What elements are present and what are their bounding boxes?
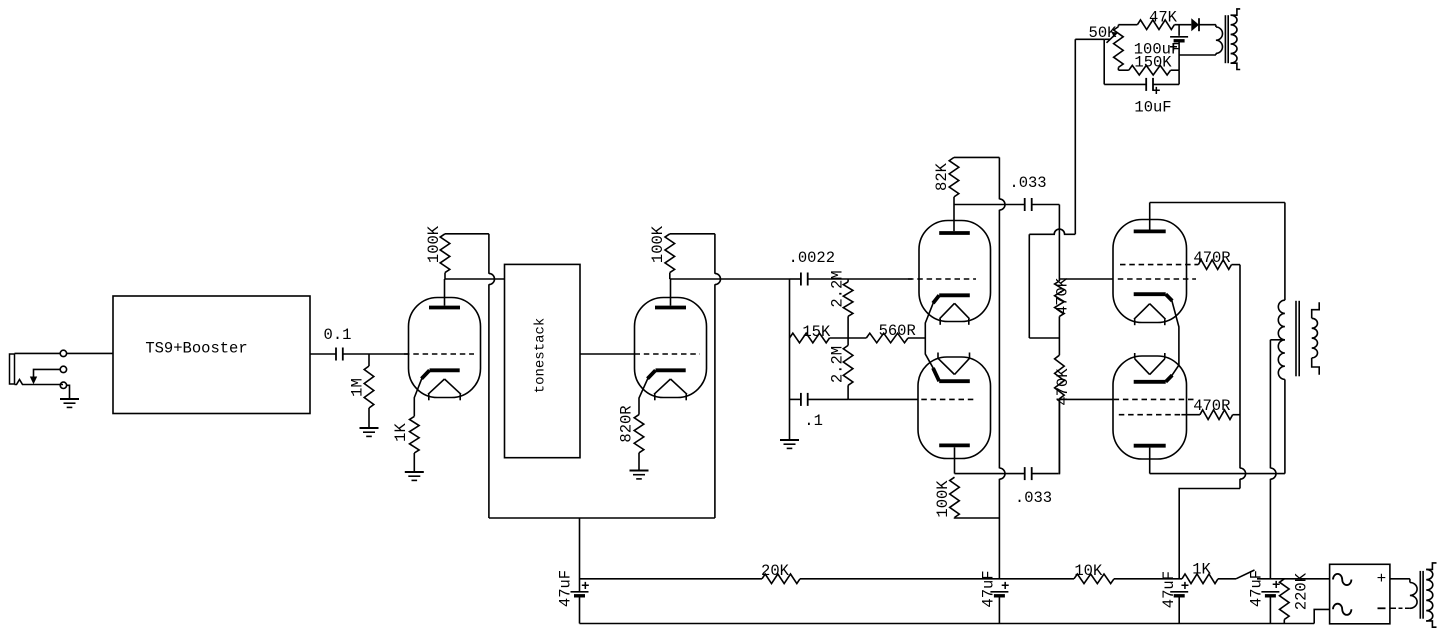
svg-text:TS9+Booster: TS9+Booster	[145, 340, 247, 358]
svg-text:.033: .033	[1015, 489, 1052, 507]
svg-text:47uF: 47uF	[557, 570, 575, 607]
svg-text:220K: 220K	[1292, 572, 1310, 610]
svg-text:10K: 10K	[1074, 562, 1103, 580]
svg-text:tonestack: tonestack	[533, 318, 549, 394]
svg-text:0.1: 0.1	[324, 326, 352, 344]
svg-text:+: +	[1181, 579, 1189, 595]
svg-text:100K: 100K	[649, 225, 667, 263]
svg-text:150K: 150K	[1134, 54, 1172, 72]
svg-text:.033: .033	[1009, 174, 1046, 192]
svg-text:+: +	[581, 579, 589, 595]
svg-text:1K: 1K	[392, 423, 410, 442]
svg-text:1M: 1M	[349, 378, 367, 397]
svg-text:47uF: 47uF	[1248, 570, 1266, 607]
svg-text:20K: 20K	[761, 562, 790, 580]
svg-text:+: +	[1272, 578, 1280, 594]
svg-text:.1: .1	[804, 412, 823, 430]
svg-text:.0022: .0022	[789, 249, 836, 267]
svg-text:560R: 560R	[879, 322, 916, 340]
svg-text:15K: 15K	[802, 323, 831, 341]
svg-text:82K: 82K	[933, 162, 951, 191]
svg-text:820R: 820R	[617, 405, 635, 442]
svg-text:100K: 100K	[425, 225, 443, 263]
svg-text:+: +	[1377, 570, 1387, 588]
svg-text:+: +	[1001, 579, 1009, 595]
svg-text:47uF: 47uF	[979, 570, 997, 607]
svg-text:1K: 1K	[1192, 561, 1211, 579]
svg-text:470R: 470R	[1193, 249, 1230, 267]
svg-text:2.2M: 2.2M	[829, 270, 847, 307]
svg-text:100K: 100K	[934, 480, 952, 518]
svg-text:470K: 470K	[1053, 277, 1071, 315]
svg-text:10uF: 10uF	[1134, 99, 1171, 117]
svg-text:47K: 47K	[1149, 9, 1178, 27]
svg-text:470R: 470R	[1193, 397, 1230, 415]
svg-text:2.2M: 2.2M	[829, 346, 847, 383]
svg-text:47uF: 47uF	[1160, 571, 1178, 608]
